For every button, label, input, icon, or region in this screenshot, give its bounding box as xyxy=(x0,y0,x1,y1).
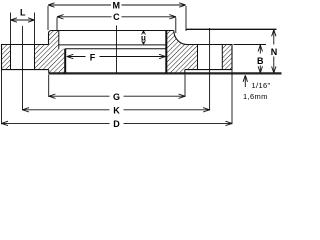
bore wall right (thick) xyxy=(165,31,167,74)
flange left mid section with hub (hatched) xyxy=(35,31,65,74)
svg-text:N: N xyxy=(271,47,278,57)
extension line L left xyxy=(10,13,12,45)
extension line D left xyxy=(1,70,3,124)
neck fillet right xyxy=(174,31,187,45)
dimension C xyxy=(57,16,112,18)
hub top fillet left xyxy=(49,31,52,34)
outline: socket shoulder far edge xyxy=(65,48,166,50)
svg-text:F: F xyxy=(90,52,96,62)
svg-text:C: C xyxy=(113,12,120,22)
gasket face step right xyxy=(184,70,186,74)
note 1/16" leader arrow xyxy=(244,76,246,88)
gasket face step left xyxy=(48,70,50,74)
svg-text:1,6mm: 1,6mm xyxy=(243,92,268,101)
right bolt hole walls xyxy=(197,45,199,70)
outline: left plate top xyxy=(1,44,49,46)
svg-text:G: G xyxy=(113,92,120,102)
outline: raised face top xyxy=(52,30,174,32)
outline: right plate top xyxy=(187,44,233,46)
outline: bottom gasket face (thick) + extension xyxy=(49,72,282,74)
svg-text:K: K xyxy=(113,105,120,115)
svg-text:u: u xyxy=(141,34,146,43)
bolt centerline left xyxy=(22,26,24,110)
flange left rim hatched section xyxy=(2,45,11,70)
bolt centerline right xyxy=(209,28,211,110)
dimension B xyxy=(259,45,261,54)
hub inner edge left xyxy=(58,31,60,49)
dimension u xyxy=(142,31,146,35)
extension line C left xyxy=(56,18,58,31)
dimension M xyxy=(48,4,111,6)
bore wall left (thick) xyxy=(64,49,66,74)
outline: flange left edge xyxy=(1,44,3,70)
dimension D xyxy=(2,122,110,124)
extension line G left xyxy=(48,75,50,98)
svg-text:1/16": 1/16" xyxy=(252,81,271,90)
outline: mid far plate-top edge xyxy=(59,44,167,46)
dimension G xyxy=(49,95,110,97)
outline: left rim bottom xyxy=(1,69,49,71)
svg-text:B: B xyxy=(257,56,264,66)
outline: right rim bottom xyxy=(185,69,233,71)
center line of flange xyxy=(116,26,118,74)
hub outer edge left xyxy=(48,34,50,45)
extension line M left xyxy=(47,6,49,30)
svg-text:D: D xyxy=(113,119,120,129)
svg-text:M: M xyxy=(112,0,120,10)
extension line D right xyxy=(231,70,233,124)
dimension K xyxy=(23,109,110,111)
outline: flange right edge xyxy=(231,44,233,70)
extension line G right xyxy=(184,75,186,98)
flange right rim hatched section xyxy=(222,45,232,70)
extension line M right xyxy=(185,6,187,31)
extension line raised-face top to N xyxy=(186,28,277,30)
left bolt hole walls xyxy=(10,45,12,70)
dimension F xyxy=(67,56,86,58)
dimension L xyxy=(11,19,35,21)
flange right neck section (hatched) xyxy=(166,31,197,74)
svg-text:L: L xyxy=(20,8,26,18)
extension line L right xyxy=(34,13,36,45)
extension line C right xyxy=(175,18,177,34)
dimension N xyxy=(273,30,275,45)
extension line plate top to B xyxy=(234,44,267,46)
